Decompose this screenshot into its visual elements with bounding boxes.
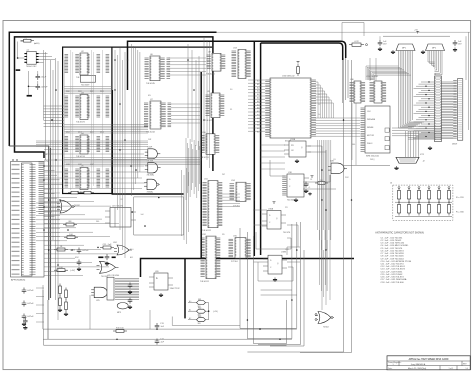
svg-text:.047uF: .047uF (27, 290, 34, 292)
svg-text:APPLE IIee HIGH SPEED DISK CAR: APPLE IIee HIGH SPEED DISK CARD (409, 358, 449, 361)
svg-text:(+5V): (+5V) (35, 43, 40, 45)
gate U26 and (328, 161, 347, 174)
IC U14 (230, 180, 251, 207)
svg-text:A15: A15 (257, 131, 260, 134)
gate U20 74HCT132 (149, 271, 180, 297)
svg-text:Jerry KARHULA: Jerry KARHULA (411, 363, 426, 366)
wire RAM verticals (64, 50, 102, 190)
wire CPU to IWM (316, 118, 361, 136)
svg-text:74HCT132: 74HCT132 (170, 288, 181, 290)
wire FF cluster (253, 146, 336, 210)
svg-text:1: 1 (393, 364, 394, 366)
wire U11 right (219, 194, 241, 206)
wire top rail (217, 31, 471, 33)
svg-text:Q3: Q3 (333, 159, 336, 161)
gate U24A (113, 242, 132, 255)
svg-text:10K: 10K (59, 267, 63, 269)
svg-text:U17A: U17A (290, 138, 296, 141)
svg-text:.047uF: .047uF (27, 303, 34, 305)
resistor R10 (54, 246, 75, 251)
wire right rail (466, 32, 469, 130)
wire bus to gates (44, 150, 147, 189)
IC U13 (232, 48, 251, 79)
svg-text:SEL: SEL (352, 144, 356, 146)
capacitor C6 (453, 40, 463, 52)
wire channel A (132, 44, 140, 196)
junction dots 3 (43, 59, 352, 340)
wire loop D (254, 236, 287, 344)
wire U19 links (287, 225, 300, 262)
svg-text:A3: A3 (257, 90, 259, 93)
wire RAM row link3 (64, 158, 200, 165)
svg-text:D4: D4 (318, 114, 320, 116)
gate U23 nor (57, 200, 81, 213)
wire bottom risers (25, 285, 150, 339)
bus left riser (9, 146, 50, 300)
svg-text:FB2: FB2 (198, 307, 201, 309)
wire bead bottom (172, 317, 240, 326)
svg-text:MA0: MA0 (66, 163, 70, 166)
svg-text:74LS251: 74LS251 (206, 74, 216, 76)
wire bottom rail3 (44, 329, 287, 345)
svg-text:R15 100: R15 100 (116, 328, 124, 330)
svg-text:A9: A9 (257, 110, 259, 113)
bus second top (128, 41, 346, 90)
wire right loops (322, 150, 330, 310)
wire U6 right (169, 58, 207, 123)
ground bar osc (16, 69, 21, 71)
RAM U2 row (65, 51, 110, 79)
wire channel B (182, 168, 189, 244)
svg-text:PH0-3: PH0-3 (367, 143, 372, 145)
ground bar 2 (27, 95, 32, 97)
IC U12 tall (200, 234, 220, 283)
svg-text:WRDATA: WRDATA (367, 118, 376, 121)
flip-flop U17A (284, 138, 311, 163)
RAM U3 row (65, 93, 110, 124)
svg-text:IWM 344-0041: IWM 344-0041 (366, 156, 380, 158)
svg-text:D0: D0 (318, 94, 320, 96)
resistor R3 R4 (68, 191, 94, 194)
svg-text:A2: A2 (257, 86, 259, 89)
power +5V (383, 30, 450, 37)
ground bars mid (98, 257, 115, 259)
IC U31 (366, 76, 386, 103)
svg-text:U31 74LS161: U31 74LS161 (366, 76, 379, 78)
wire bus to RAM (44, 106, 65, 126)
svg-text:RA3: RA3 (100, 90, 104, 93)
svg-text:C17 .1uF - U31 IWM 344A: C17 .1uF - U31 IWM 344A (381, 278, 407, 281)
svg-text:A2: A2 (189, 317, 191, 320)
gate U22A (145, 147, 161, 163)
svg-text:2-2: 2-2 (27, 49, 30, 51)
wire thick cont (343, 58, 348, 103)
gate U28 nor bubble (315, 312, 334, 329)
resistor R11 (54, 267, 75, 272)
power cluster (273, 176, 314, 204)
wire right region box (247, 58, 390, 353)
flip-flop U19A (262, 208, 291, 235)
RAM U5 row (65, 166, 110, 194)
capacitor C28 (23, 318, 28, 330)
svg-text:U21 74LS74: U21 74LS74 (112, 206, 124, 208)
buffer column U33 (39, 162, 44, 213)
svg-text:C11 .1uF: C11 .1uF (103, 244, 112, 246)
IC U10 (200, 132, 219, 159)
capacitor C23 (77, 248, 90, 254)
IC U32 IWM (361, 106, 391, 158)
svg-text:March 25, 2009(Sat): March 25, 2009(Sat) (408, 367, 427, 370)
bus main top (9, 32, 216, 171)
capacitor C5 (378, 40, 388, 51)
capacitor C26 (128, 283, 133, 295)
svg-text:.01uF: .01uF (41, 77, 47, 79)
svg-text:R = 330: R = 330 (456, 212, 465, 214)
wire bottom rails (43, 290, 297, 339)
wire U19B loop (258, 262, 293, 281)
svg-text:.047uF: .047uF (27, 316, 34, 318)
svg-text:16: 16 (390, 183, 392, 185)
resistor R14 (100, 244, 114, 249)
wire CPU down bus (318, 140, 331, 250)
svg-text:S0: S0 (230, 89, 232, 91)
svg-text:MTR: MTR (420, 154, 425, 156)
resistor pack MP2 (421, 44, 445, 54)
wire top stub (342, 23, 364, 42)
svg-text:74LS251: 74LS251 (200, 157, 210, 159)
wire loop A (134, 197, 184, 235)
svg-text:74S02: 74S02 (323, 327, 330, 329)
svg-text:APPLE2(BUS): APPLE2(BUS) (11, 279, 25, 282)
svg-text:A7: A7 (257, 103, 259, 106)
label CPU addresses (257, 80, 260, 134)
svg-text:FB3: FB3 (198, 316, 201, 318)
wire RAM row link2 (64, 125, 148, 134)
capacitor C29 (304, 182, 309, 194)
resistor R12 R13 chain (58, 284, 68, 317)
svg-text:A11: A11 (257, 117, 260, 120)
connector J1 pair (428, 74, 463, 151)
svg-text:A4: A4 (257, 93, 259, 96)
svg-text:U19B: U19B (281, 252, 287, 254)
wire fan MP to J1 (399, 51, 443, 129)
svg-text:MA1: MA1 (78, 163, 82, 166)
title block (387, 356, 470, 370)
capacitor list (375, 232, 424, 284)
wire P1 lower fan (36, 203, 60, 241)
junction dots 2 (131, 169, 159, 227)
wire P1 mid fan (44, 193, 119, 276)
IC U9 (205, 91, 224, 122)
ground U18 (294, 192, 312, 202)
flip-flop U19B (263, 252, 287, 282)
svg-text:(+5V): (+5V) (70, 270, 75, 272)
CPU U16 65C02 (265, 76, 316, 143)
svg-text:74LS245: 74LS245 (146, 83, 156, 85)
resistor pack MP4 (107, 275, 139, 300)
svg-text:U29 74LS244: U29 74LS244 (107, 275, 120, 277)
wire J1 left stubs (414, 81, 435, 138)
gate U22C (144, 179, 160, 193)
IC U8 (206, 51, 225, 75)
svg-text:U16 65SC02: U16 65SC02 (282, 76, 295, 78)
svg-text:WRQ: WRQ (370, 159, 375, 161)
resistor pack MP1 (391, 44, 415, 54)
svg-text:RD1: RD1 (78, 132, 82, 134)
svg-text:A1: A1 (189, 308, 191, 311)
resistor R9 (64, 234, 78, 239)
svg-text:C3 .1uF - U14 74HC132: C3 .1uF - U14 74HC132 (381, 243, 405, 245)
svg-text:A6: A6 (257, 100, 259, 103)
resistor network RN1 (390, 183, 465, 221)
svg-text:74LS74: 74LS74 (283, 232, 291, 234)
svg-text:A10: A10 (257, 114, 260, 117)
capacitor C20 (22, 288, 35, 294)
svg-text:A11: A11 (130, 256, 133, 259)
svg-text:74LS153: 74LS153 (76, 156, 86, 158)
svg-text:SEL: SEL (96, 221, 100, 223)
capacitor C21 (22, 301, 35, 307)
gate U25 and (91, 287, 110, 302)
wire osc (17, 42, 55, 161)
latch U18 (282, 172, 309, 202)
svg-text:FB1: FB1 (198, 299, 201, 301)
svg-text:RD3: RD3 (100, 132, 104, 134)
RAM U4 row (65, 133, 110, 158)
svg-text:74LS259: 74LS259 (81, 85, 90, 87)
capacitor C24 (77, 260, 82, 272)
capacitor C22 (22, 314, 35, 327)
IC U7 (144, 99, 171, 134)
gate U22B (145, 162, 161, 176)
svg-text:74LS374: 74LS374 (202, 230, 212, 232)
svg-text:A0: A0 (189, 300, 191, 303)
resistor R6 (349, 41, 368, 46)
wire J1 to IWM (392, 127, 442, 140)
wire CPU left bus (248, 80, 265, 131)
svg-text:SENSE: SENSE (367, 127, 374, 129)
wire U19A loop (256, 232, 291, 249)
svg-text:1 of 1: 1 of 1 (449, 368, 454, 370)
svg-text:C18 .1uF - U32 74LS00: C18 .1uF - U32 74LS00 (381, 282, 405, 284)
wire IWM to J2 (406, 131, 419, 157)
svg-text:4.7K: 4.7K (354, 41, 359, 43)
svg-text:RW: RW (44, 154, 47, 156)
svg-text:74LS374: 74LS374 (200, 281, 210, 283)
svg-text:A0: A0 (257, 80, 259, 83)
capacitor C13 (155, 323, 165, 329)
svg-text:R = 220: R = 220 (456, 197, 465, 199)
svg-text:C13 .1uF - U26 74LS374: C13 .1uF - U26 74LS374 (381, 269, 406, 271)
svg-text:(+5V): (+5V) (213, 311, 218, 313)
svg-text:A5: A5 (257, 97, 259, 100)
svg-text:MA2: MA2 (90, 163, 94, 166)
IC U11 tall (202, 179, 222, 232)
wire P1 tail (36, 288, 44, 322)
svg-text:PH2: PH2 (345, 177, 349, 179)
wire loop B (240, 222, 297, 328)
svg-text:RD2: RD2 (90, 132, 94, 134)
svg-text:1.0: 1.0 (466, 368, 468, 370)
flip-flop U21 (105, 206, 136, 228)
wire mid verticals (115, 48, 125, 258)
wire bus to U4 (36, 141, 148, 146)
wire right verticals (186, 38, 210, 200)
wire U30 verticals (352, 36, 380, 165)
svg-text:A10: A10 (130, 248, 133, 251)
svg-text:D2: D2 (318, 104, 320, 106)
svg-text:.047uF: .047uF (82, 250, 89, 252)
latch U2 sub (80, 75, 95, 86)
resistor R5 pullup (297, 61, 300, 76)
wire loop E (258, 222, 301, 345)
capacitor C1 (36, 74, 47, 80)
svg-text:C8 .1uF - U15 74LS245: C8 .1uF - U15 74LS245 (381, 256, 405, 258)
label scatter (44, 89, 425, 259)
svg-text:EN2: EN2 (75, 257, 79, 259)
resistor R15 (113, 328, 127, 333)
resistor R16 (315, 180, 328, 185)
svg-text:S1: S1 (230, 109, 232, 111)
wire loop F (270, 250, 304, 346)
svg-text:74LS08a: 74LS08a (147, 175, 156, 177)
svg-text:CLR: CLR (285, 249, 289, 251)
bus vertical center (254, 41, 260, 256)
IC U6 (145, 54, 171, 85)
wire MP1 to U31 (366, 66, 411, 80)
wire bus to U18 (261, 145, 285, 169)
svg-text:A1: A1 (257, 83, 259, 86)
wire bus P1 (44, 166, 63, 217)
svg-text:RD0: RD0 (66, 132, 70, 134)
capacitor C27 (128, 298, 133, 310)
svg-text:Date:: Date: (388, 367, 393, 370)
svg-text:74LS374: 74LS374 (76, 122, 86, 124)
svg-text:74S04 OSC: 74S04 OSC (26, 66, 37, 68)
wire CPU right fan (316, 82, 334, 118)
wire FF links (254, 225, 301, 295)
resistor pack MP5 oval (117, 303, 128, 315)
svg-text:A8: A8 (257, 107, 259, 110)
capacitor C25 (105, 254, 110, 266)
svg-text:MOTOR: MOTOR (367, 135, 375, 137)
svg-text:Drawn/Engineer:: Drawn/Engineer: (388, 362, 402, 364)
svg-text:+5: +5 (308, 187, 310, 189)
wire loop C (247, 224, 292, 339)
svg-text:27C64: 27C64 (231, 261, 238, 263)
connector J2 (394, 157, 425, 170)
svg-text:RA2: RA2 (90, 90, 94, 93)
svg-text:+5V: +5V (414, 30, 418, 32)
resistor R8 (63, 221, 77, 226)
svg-text:C8: C8 (120, 199, 122, 201)
RAM array box (63, 47, 212, 193)
svg-text:ANTI-PARASITIC CAPACITORS NO: ANTI-PARASITIC CAPACITORS NOT SHOWN: (375, 232, 424, 235)
wire left bundle (51, 58, 59, 320)
svg-text:U19A: U19A (268, 208, 274, 211)
svg-text:A12: A12 (257, 120, 260, 123)
IC U15 (229, 236, 251, 263)
svg-text:SYNC: SYNC (44, 161, 50, 163)
svg-text:A14: A14 (257, 127, 260, 130)
edge connector P1 (11, 159, 45, 281)
capacitor C2 (36, 84, 49, 90)
resistor R1 (21, 38, 40, 46)
svg-text:DB19: DB19 (452, 144, 458, 146)
bus mid stair (112, 72, 354, 318)
wire CPU down bus 2 (320, 230, 328, 297)
svg-text:RA0: RA0 (66, 90, 70, 93)
ferrite beads FB1-FB3 (188, 299, 218, 325)
oscillator U1 (24, 49, 38, 68)
svg-text:A13: A13 (257, 124, 260, 127)
test points TP (385, 128, 389, 150)
svg-text:.047uF: .047uF (41, 87, 48, 89)
svg-text:RA1: RA1 (78, 90, 82, 93)
wire RAM row link1 (64, 87, 112, 94)
svg-text:74S08a: 74S08a (147, 192, 154, 194)
gate U24B (97, 261, 119, 278)
capacitor C14 (155, 339, 165, 345)
IC U30 (350, 79, 366, 103)
